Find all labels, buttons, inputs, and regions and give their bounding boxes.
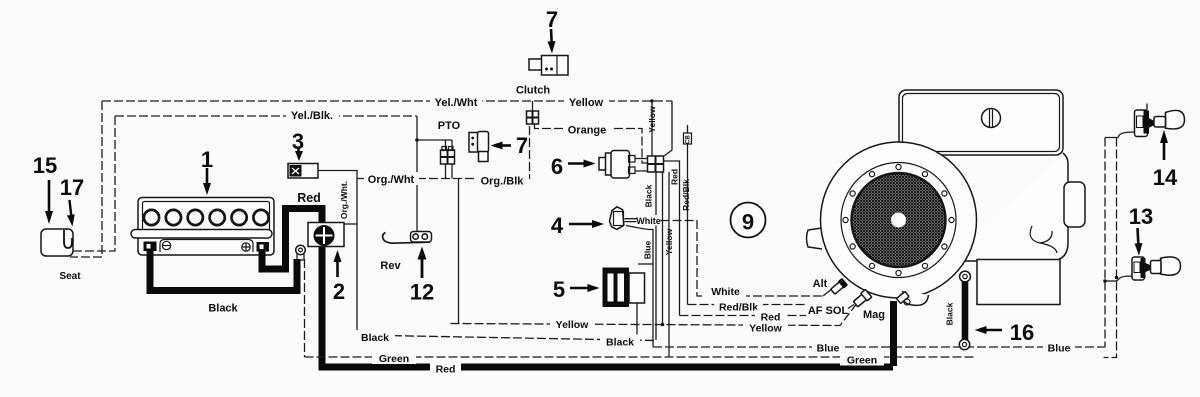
light 13 socket: [1105, 257, 1150, 281]
wire yellow drop to key connector: [651, 101, 653, 156]
label White small: [636, 215, 661, 226]
wire white double from item4: [625, 219, 638, 222]
afsol connector: [852, 289, 871, 308]
label Green on-line left: [372, 351, 416, 365]
arrow 1: [206, 168, 209, 186]
alt connector: [830, 278, 848, 296]
svg-text:PTO: PTO: [438, 120, 461, 132]
label Org./Wht on-line: [364, 172, 419, 186]
engine side block: [1064, 182, 1085, 227]
wire yellow bottom line: [451, 304, 857, 326]
label Green on-line right: [840, 353, 884, 367]
svg-text:Orange: Orange: [568, 125, 607, 137]
wire white diagonal to alt: [823, 288, 833, 296]
junction dot yellow/key: [661, 323, 665, 327]
arrow 2: [336, 259, 339, 277]
wire afsol diagonal: [848, 305, 854, 309]
svg-text:Red: Red: [297, 191, 321, 205]
wire yel/wht top line: [102, 100, 672, 102]
svg-text:7: 7: [546, 7, 558, 32]
solenoid ring terminal (ground): [296, 245, 306, 260]
starter block: [977, 260, 1060, 305]
mag connector stub: [896, 291, 909, 303]
wire light vertical left: [1104, 138, 1106, 348]
wire yellow2 vertical from key: [662, 172, 664, 324]
battery B1: [131, 198, 274, 256]
engine body: [950, 153, 1068, 261]
svg-text:Red: Red: [436, 364, 456, 376]
label Yel./Wht on-line: [430, 95, 482, 109]
light 14 bulb: [1154, 110, 1185, 128]
label Red bottom: [755, 310, 786, 324]
svg-text:Org./Wht.: Org./Wht.: [339, 181, 349, 219]
muffler pipe circle: [904, 299, 910, 305]
engine fuel cap screw: [982, 109, 1001, 128]
wire white continue: [661, 221, 824, 297]
wire yel/blk line: [115, 115, 417, 117]
svg-text:Red/Blk: Red/Blk: [719, 302, 758, 314]
arrow 5: [570, 287, 590, 290]
wire yellow3 vertical: [668, 172, 670, 357]
svg-text:12: 12: [410, 280, 434, 305]
arrow 17: [70, 200, 72, 218]
junction dots lights: [1103, 279, 1107, 283]
flywheel screen mesh: [852, 173, 946, 267]
cs mini breaker: [684, 125, 692, 144]
svg-text:5: 5: [553, 277, 565, 302]
svg-text:Red/Blk: Red/Blk: [681, 179, 691, 211]
wire blue bottom line: [653, 346, 1105, 348]
wire green drop from ground: [304, 259, 306, 357]
PTO connector: [441, 147, 455, 165]
item 4 connector: [610, 207, 624, 230]
svg-text:Yellow: Yellow: [569, 97, 604, 109]
battery positive terminal: [257, 242, 270, 252]
item 16 ground strap: [959, 271, 970, 350]
flywheel hub: [891, 213, 906, 228]
arrow 15: [48, 180, 51, 214]
engine top panel: [899, 90, 1063, 155]
arrow 7 top: [550, 29, 553, 45]
svg-text:15: 15: [33, 153, 57, 178]
svg-text:Seat: Seat: [59, 271, 81, 282]
label Blue on-line left: [812, 341, 844, 355]
wire yel/wht left drop to seat: [70, 101, 102, 257]
arrow 4: [569, 223, 594, 226]
light 13 bulb: [1151, 257, 1181, 275]
item 3 circuit breaker: [288, 164, 318, 179]
svg-text:Black: Black: [644, 184, 654, 207]
key switch item 6: [599, 151, 635, 179]
bolt holes: [843, 164, 954, 275]
svg-text:Rev: Rev: [380, 260, 401, 272]
svg-text:AF SOL: AF SOL: [808, 305, 849, 317]
svg-text:Mag: Mag: [863, 309, 885, 321]
label Yellow on-line mid: [550, 317, 595, 331]
clutch connector: [527, 101, 539, 124]
label Black on-line left: [355, 330, 395, 344]
wire yel/blk left drop to seat: [73, 116, 115, 251]
svg-text:Black: Black: [945, 302, 955, 325]
svg-text:Blue: Blue: [1048, 343, 1071, 355]
wire blue from item4: [626, 226, 653, 348]
label Blue on-line right: [1043, 341, 1075, 355]
arrow 3: [297, 148, 300, 154]
svg-text:13: 13: [1129, 204, 1153, 229]
wire branch to PTO connector: [417, 139, 452, 141]
svg-text:White: White: [636, 216, 661, 226]
wire item5 top L to blue: [638, 263, 653, 265]
svg-text:CB: CB: [686, 135, 692, 144]
svg-text:White: White: [711, 286, 740, 298]
wire stub to solenoid: [345, 223, 358, 225]
svg-text:17: 17: [60, 175, 84, 200]
label Yellow on-line top: [564, 95, 609, 109]
arrow 6: [568, 162, 586, 165]
circled 9: [731, 203, 766, 238]
wire green bottom line: [305, 356, 976, 358]
battery negative terminal: [144, 242, 157, 252]
engine carb detail: [1030, 226, 1057, 253]
svg-text:Blue: Blue: [643, 241, 653, 260]
solenoid contact disc: [314, 226, 334, 246]
svg-text:Green: Green: [847, 355, 877, 367]
flange circle: [841, 163, 956, 278]
svg-text:7: 7: [516, 133, 528, 158]
svg-text:Clutch: Clutch: [516, 85, 551, 97]
svg-text:6: 6: [551, 154, 563, 179]
muffler pipe: [902, 291, 928, 305]
key connector: [636, 156, 664, 172]
wire red/blk vertical: [687, 144, 689, 305]
svg-text:Yellow: Yellow: [647, 106, 657, 133]
svg-text:4: 4: [551, 213, 564, 238]
svg-text:Blue: Blue: [817, 343, 840, 355]
item 7 PTO switch: [469, 132, 489, 162]
wire red vertical: [664, 161, 680, 316]
battery minus symbol: [162, 241, 170, 249]
light 14 socket: [1105, 104, 1154, 138]
svg-text:Black: Black: [606, 337, 634, 349]
arrow 14: [1163, 143, 1166, 160]
label Red/Blk bottom: [714, 300, 763, 314]
svg-text:Yellow: Yellow: [556, 319, 590, 331]
item 7 clutch switch: [529, 56, 568, 76]
seat switch: [41, 229, 73, 256]
wire black bottom line: [357, 335, 656, 341]
svg-text:Org./Blk: Org./Blk: [481, 176, 525, 188]
battery cable bottom run (red): [320, 364, 893, 371]
wire black vertical from key: [655, 172, 657, 340]
battery negative thick black cable: [150, 250, 297, 291]
arrow 13: [1138, 228, 1139, 247]
item 5 fuse block: [603, 268, 645, 308]
label Yel./Blk. on-line: [286, 108, 339, 122]
label Org./Blk on-line: [476, 174, 529, 188]
wire drop to yellow bottom: [458, 179, 460, 324]
svg-text:Yel./Wht: Yel./Wht: [435, 97, 478, 109]
label Yellow bottom right: [743, 321, 788, 335]
svg-text:Black: Black: [208, 303, 238, 315]
junction dot yellow line: [650, 99, 654, 103]
label Orange on-line: [563, 123, 611, 137]
wire org/wht-org/blk horizontal: [357, 124, 530, 179]
wire item3 to org/wht vertical: [318, 171, 357, 336]
Rev switch item 12: [383, 232, 432, 244]
svg-text:Black: Black: [361, 332, 389, 344]
svg-text:Green: Green: [379, 353, 409, 365]
wire item5 right down to black line: [636, 303, 638, 340]
svg-text:Red: Red: [670, 169, 680, 185]
battery plus symbol: [242, 243, 250, 251]
svg-text:Org./Wht: Org./Wht: [368, 174, 415, 186]
battery positive thick red cable: [262, 209, 322, 368]
label White bottom: [705, 284, 746, 298]
junction dot pto branch: [415, 138, 419, 142]
svg-text:2: 2: [333, 279, 345, 304]
svg-text:Yel./Blk.: Yel./Blk.: [291, 110, 333, 122]
starter cable thick: [890, 301, 897, 366]
svg-text:14: 14: [1153, 165, 1178, 190]
wire yel/blk vertical to rev: [416, 116, 418, 232]
wire light vertical right: [1104, 138, 1117, 358]
arrow 16: [984, 329, 1002, 332]
engine left tab: [807, 228, 823, 249]
wire yellow line right end corner: [664, 101, 672, 156]
svg-text:9: 9: [742, 210, 754, 235]
svg-text:Alt: Alt: [813, 278, 828, 290]
label Black on-line right: [600, 335, 640, 349]
blower housing outer circle: [821, 142, 977, 298]
arrow 12: [421, 258, 424, 278]
solenoid S1 body: [308, 223, 344, 247]
arrow 7 mid: [501, 144, 511, 147]
wire orange: [535, 124, 648, 163]
svg-text:Yellow: Yellow: [749, 323, 783, 335]
svg-text:16: 16: [1010, 320, 1034, 345]
label Red on thick line: [430, 362, 461, 376]
